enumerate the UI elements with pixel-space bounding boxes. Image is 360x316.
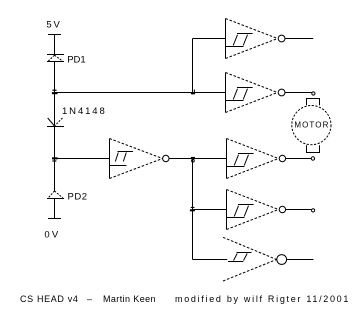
- svg-text:5V: 5V: [46, 20, 61, 31]
- svg-text:PD1: PD1: [67, 55, 85, 66]
- svg-text:modified by wilf Rigter 11/200: modified by wilf Rigter 11/2001: [175, 294, 350, 304]
- svg-text:–: –: [87, 294, 92, 304]
- svg-text:CS HEAD v4: CS HEAD v4: [20, 294, 79, 304]
- svg-text:Martin Keen: Martin Keen: [103, 294, 156, 304]
- svg-text:PD2: PD2: [68, 192, 88, 203]
- svg-text:MOTOR: MOTOR: [294, 121, 329, 130]
- svg-text:1N4148: 1N4148: [62, 106, 107, 117]
- svg-text:0V: 0V: [44, 229, 60, 240]
